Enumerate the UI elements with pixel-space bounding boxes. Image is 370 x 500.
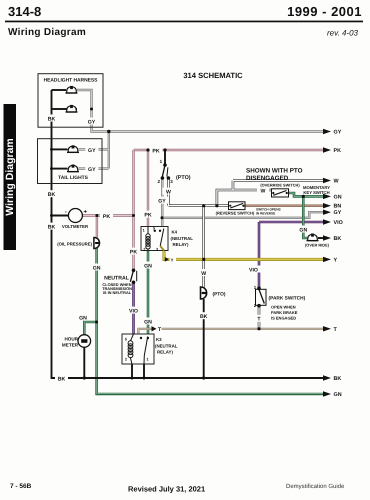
svg-text:GN: GN [144, 263, 152, 269]
svg-text:PARK BRAKE: PARK BRAKE [271, 310, 298, 315]
svg-text:7 - 56B: 7 - 56B [10, 483, 32, 490]
svg-text:GY: GY [334, 210, 342, 216]
svg-text:-: - [65, 210, 67, 216]
svg-text:2: 2 [125, 358, 127, 362]
svg-text:Wiring Diagram: Wiring Diagram [4, 138, 16, 216]
svg-text:PK: PK [130, 249, 137, 255]
svg-text:(REVERSE SWITCH): (REVERSE SWITCH) [216, 211, 255, 216]
svg-text:(PARK SWITCH): (PARK SWITCH) [269, 295, 306, 301]
svg-text:IN REVERSE: IN REVERSE [256, 211, 275, 215]
svg-text:PK: PK [334, 148, 342, 154]
svg-text:BK: BK [48, 192, 56, 198]
svg-text:5: 5 [153, 227, 155, 231]
svg-text:HOUR: HOUR [64, 337, 78, 342]
svg-text:2: 2 [143, 247, 145, 251]
svg-text:(OIL PRESSURE): (OIL PRESSURE) [57, 241, 92, 246]
svg-text:Y: Y [171, 257, 174, 262]
svg-text:SHOWN WITH PTO: SHOWN WITH PTO [246, 168, 303, 175]
svg-text:BK: BK [334, 236, 342, 242]
svg-text:GN: GN [79, 316, 87, 322]
svg-text:(NEUTRAL: (NEUTRAL [155, 343, 178, 348]
svg-text:GY: GY [334, 130, 342, 136]
svg-text:VOLTMETER: VOLTMETER [62, 224, 89, 229]
svg-text:Y: Y [334, 257, 338, 263]
svg-text:Wiring Diagram: Wiring Diagram [8, 27, 86, 38]
svg-text:IS ENGAGED: IS ENGAGED [271, 316, 296, 321]
svg-text:NEUTRAL: NEUTRAL [104, 275, 130, 281]
svg-text:314 SCHEMATIC: 314 SCHEMATIC [183, 71, 243, 80]
svg-text:RELAY): RELAY) [173, 242, 189, 247]
svg-text:IS IN NEUTRAL: IS IN NEUTRAL [103, 290, 132, 295]
svg-text:+: + [83, 210, 87, 216]
svg-text:BK: BK [48, 224, 56, 230]
svg-text:5: 5 [125, 338, 127, 342]
svg-text:W: W [201, 271, 206, 277]
svg-text:(NEUTRAL: (NEUTRAL [171, 236, 194, 241]
svg-text:3: 3 [156, 247, 158, 251]
svg-text:(OVER RIDE): (OVER RIDE) [305, 243, 330, 248]
svg-text:W: W [166, 189, 171, 195]
svg-text:KEY SWITCH: KEY SWITCH [303, 190, 329, 195]
svg-text:314-8: 314-8 [8, 4, 41, 19]
svg-text:BN: BN [334, 204, 342, 210]
svg-text:PK: PK [103, 214, 110, 220]
svg-text:1: 1 [143, 229, 145, 233]
svg-text:GN: GN [334, 392, 342, 398]
svg-text:GN: GN [334, 194, 342, 200]
svg-text:(PTO): (PTO) [176, 175, 191, 181]
svg-text:TAIL LIGHTS: TAIL LIGHTS [58, 175, 88, 181]
svg-text:GY: GY [88, 119, 96, 125]
svg-text:BK: BK [48, 116, 56, 122]
svg-text:HEADLIGHT HARNESS: HEADLIGHT HARNESS [44, 78, 99, 84]
svg-text:RELAY): RELAY) [157, 350, 173, 355]
svg-text:W: W [261, 188, 266, 194]
svg-text:GY: GY [88, 167, 96, 173]
svg-text:VIO: VIO [129, 308, 138, 314]
svg-text:BK: BK [334, 376, 342, 382]
svg-text:(OVERRIDE SWITCH): (OVERRIDE SWITCH) [260, 183, 300, 188]
svg-text:GY: GY [158, 198, 166, 204]
svg-text:K4: K4 [172, 230, 178, 235]
svg-text:PK: PK [152, 148, 159, 154]
svg-text:1: 1 [147, 358, 149, 362]
svg-text:VIO: VIO [249, 267, 258, 273]
svg-text:METER: METER [62, 343, 79, 348]
svg-text:GN: GN [93, 265, 101, 271]
svg-text:(PTO): (PTO) [213, 291, 226, 297]
svg-text:K3: K3 [156, 337, 162, 342]
svg-text:Demystification Guide: Demystification Guide [286, 483, 345, 490]
svg-text:PK: PK [144, 212, 151, 218]
svg-text:rev. 4-03: rev. 4-03 [327, 29, 359, 38]
svg-text:GY: GY [88, 148, 96, 154]
svg-text:GN: GN [144, 319, 152, 325]
svg-text:DISENGAGED: DISENGAGED [246, 175, 289, 182]
svg-text:1999 - 2001: 1999 - 2001 [287, 4, 362, 19]
svg-text:BK: BK [58, 376, 66, 382]
svg-text:OPEN WHEN: OPEN WHEN [271, 305, 296, 310]
svg-text:VIO: VIO [334, 220, 343, 226]
svg-text:GN: GN [299, 227, 307, 233]
svg-text:BK: BK [200, 314, 208, 320]
svg-text:Revised July 31, 2021: Revised July 31, 2021 [128, 485, 205, 494]
